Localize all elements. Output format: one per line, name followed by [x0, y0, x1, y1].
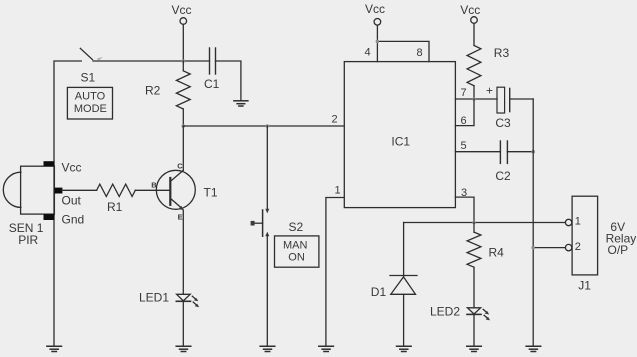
node junction R2 bottom	[182, 124, 186, 128]
node junction R2 top	[182, 59, 186, 63]
wire pin 3	[455, 197, 474, 223]
transistor T1	[151, 162, 218, 222]
LED2	[430, 304, 490, 320]
wire pin3 rail to J1	[404, 222, 566, 224]
svg-text:4: 4	[365, 47, 371, 59]
svg-text:B: B	[151, 181, 157, 190]
wire right ground rail	[532, 99, 534, 346]
resistor R3	[467, 45, 509, 99]
switch S2 pushbutton	[251, 209, 304, 236]
ground pin1	[319, 346, 334, 351]
svg-text:S2: S2	[289, 220, 304, 234]
svg-text:C2: C2	[495, 169, 511, 183]
svg-text:Out: Out	[62, 193, 82, 207]
PIR sensor SEN1	[3, 160, 84, 247]
svg-text:Vcc: Vcc	[460, 3, 480, 17]
svg-text:D1: D1	[371, 285, 387, 299]
Vcc supply top-center	[172, 3, 192, 61]
svg-text:2: 2	[332, 114, 338, 126]
ground left	[47, 346, 62, 351]
svg-text:T1: T1	[204, 186, 218, 200]
svg-text:PIR: PIR	[18, 233, 38, 247]
svg-text:7: 7	[461, 87, 467, 99]
resistor R4	[467, 223, 504, 308]
LED1	[139, 291, 199, 308]
svg-text:AUTO: AUTO	[75, 91, 106, 103]
IC op-amp/timer U IC1	[344, 62, 455, 208]
ground right rail	[526, 346, 541, 351]
node junction Vcc bracket	[376, 40, 380, 44]
capacitor C2	[495, 141, 511, 183]
svg-text:LED1: LED1	[139, 291, 169, 305]
wire pin 7	[455, 98, 497, 100]
wire J1 pin2 to right rail	[533, 247, 565, 249]
svg-text:MODE: MODE	[74, 103, 107, 115]
resistor R2	[145, 61, 190, 126]
svg-text:J1: J1	[578, 279, 591, 293]
wire pins 4-8 bracket	[377, 41, 429, 61]
wire LED1 to ground	[182, 301, 184, 346]
wire emitter down	[182, 210, 184, 294]
svg-text:C3: C3	[495, 116, 511, 130]
svg-text:C: C	[177, 162, 183, 171]
wire D1 to ground	[403, 294, 405, 346]
ground C1	[234, 101, 248, 106]
svg-text:R2: R2	[145, 83, 161, 97]
label 6V Relay O/P	[606, 220, 637, 257]
ground LED2	[467, 346, 482, 351]
switch S1	[80, 48, 209, 61]
svg-text:R1: R1	[107, 200, 123, 214]
AUTO MODE box	[67, 87, 112, 119]
svg-text:MAN: MAN	[283, 239, 308, 251]
node junction pin7/R3	[472, 97, 476, 101]
svg-text:R3: R3	[494, 46, 510, 60]
svg-text:8: 8	[417, 47, 423, 59]
wire pin2 rail	[183, 125, 344, 127]
svg-text:ON: ON	[288, 252, 305, 264]
connector J1	[565, 196, 597, 292]
svg-text:C1: C1	[204, 77, 220, 91]
wire pin 6 tie	[455, 99, 474, 126]
svg-text:Gnd: Gnd	[62, 212, 85, 226]
wire collector up	[182, 126, 184, 170]
ground LED1	[176, 346, 191, 351]
wire C1 to ground	[216, 61, 241, 101]
MAN ON box	[275, 236, 319, 267]
capacitor C3 polarized	[486, 84, 511, 131]
node junction S2 tap	[266, 124, 270, 128]
svg-text:O/P: O/P	[608, 243, 629, 257]
node junction C2/right rail	[531, 150, 535, 154]
svg-text:1: 1	[335, 185, 341, 197]
wire C2 to right rail	[507, 151, 533, 153]
svg-text:IC1: IC1	[391, 134, 410, 148]
svg-text:R4: R4	[489, 245, 505, 259]
svg-text:LED2: LED2	[430, 304, 460, 318]
ground D1	[397, 346, 412, 351]
svg-text:E: E	[178, 212, 183, 221]
node junction right rail pin2	[531, 246, 535, 250]
wire Out to R1	[62, 189, 97, 191]
ground S2	[260, 346, 275, 351]
svg-text:5: 5	[461, 140, 467, 152]
wire pin 5	[455, 151, 500, 153]
svg-text:Vcc: Vcc	[365, 2, 385, 16]
wire R1 to base	[135, 189, 170, 191]
svg-text:Vcc: Vcc	[172, 3, 192, 17]
resistor R1	[97, 184, 136, 214]
wire C3 to right rail	[510, 98, 534, 100]
Vcc supply R3	[460, 3, 480, 45]
diode D1	[371, 223, 417, 300]
svg-text:S1: S1	[81, 71, 96, 85]
capacitor C1	[204, 48, 220, 91]
wire S2 upper	[266, 126, 268, 210]
svg-text:Vcc: Vcc	[62, 160, 82, 174]
wire left vertical net	[54, 61, 81, 346]
wire pin 1 to ground	[326, 198, 344, 347]
node junction pin3/R4	[472, 221, 476, 225]
svg-text:+: +	[486, 84, 493, 98]
wire S2 lower	[266, 235, 268, 347]
Vcc supply IC	[365, 2, 385, 62]
svg-text:2: 2	[575, 241, 581, 253]
svg-text:1: 1	[575, 216, 581, 228]
wire LED2 to ground	[473, 314, 475, 346]
